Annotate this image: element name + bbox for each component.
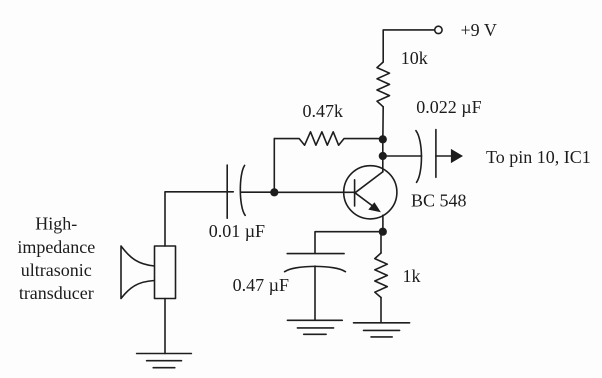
transducer body (155, 246, 176, 299)
label High-impedance ultrasonic transducer (17, 214, 95, 303)
ground transducer (137, 354, 192, 368)
svg-text:To pin 10, IC1: To pin 10, IC1 (486, 147, 591, 167)
wire 1k to ground (380, 298, 382, 323)
capacitor C2 0.47 uF (285, 254, 346, 272)
power terminal +9V (435, 26, 442, 33)
transducer horn (121, 246, 155, 299)
wire emitter to emitter node (382, 215, 384, 232)
resistor R1 10k (377, 62, 390, 107)
transistor Q1 BC548 (344, 166, 397, 219)
node collector junction lower (379, 152, 387, 160)
svg-text:ultrasonic: ultrasonic (21, 260, 92, 280)
output arrow (451, 149, 463, 163)
wire emitter node down to 1k (380, 232, 382, 253)
wire bypass cap to ground (314, 266, 316, 320)
wire transducer bottom to ground (164, 299, 166, 354)
wire collector vertical through junctions (382, 135, 384, 172)
ground emitter (354, 323, 410, 337)
svg-text:transducer: transducer (19, 283, 94, 303)
node base junction (270, 188, 278, 196)
svg-text:10k: 10k (401, 48, 428, 68)
resistor R2 0.47k (274, 132, 378, 145)
wire output cap to arrow (436, 155, 452, 157)
svg-text:+9 V: +9 V (461, 20, 497, 40)
wire input cap to base node (241, 191, 271, 193)
node emitter junction (379, 228, 387, 236)
wire base node up to feedback resistor (273, 139, 275, 193)
wire emitter node to bypass cap (315, 232, 383, 254)
svg-text:0.47k: 0.47k (303, 101, 344, 121)
svg-text:High-: High- (35, 214, 77, 234)
wire base node to transistor base (274, 191, 354, 193)
node collector junction upper (379, 135, 387, 143)
capacitor C3 0.022 uF (416, 130, 436, 183)
ground bypass capacitor (287, 320, 342, 334)
svg-text:1k: 1k (403, 266, 421, 286)
wire transducer top to input cap (165, 192, 233, 246)
svg-text:0.022 µF: 0.022 µF (416, 97, 481, 117)
wire +9V to 10k resistor (383, 30, 434, 62)
wire output node to output cap (383, 155, 422, 157)
svg-text:impedance: impedance (17, 237, 95, 257)
svg-text:BC 548: BC 548 (411, 191, 467, 211)
svg-text:0.47 µF: 0.47 µF (233, 275, 289, 295)
svg-text:0.01 µF: 0.01 µF (209, 221, 265, 241)
capacitor C1 0.01 uF (227, 165, 245, 218)
wire 10k bottom to collector node (382, 107, 384, 135)
resistor R3 1k (375, 253, 388, 298)
